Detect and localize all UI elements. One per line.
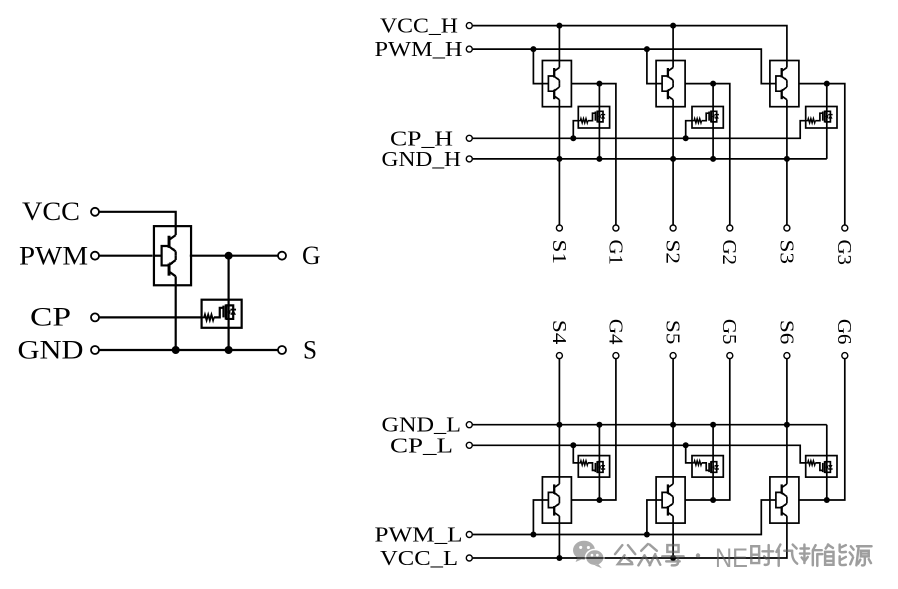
svg-text:PWM_H: PWM_H: [375, 37, 463, 61]
junction S node cell 3: [784, 156, 790, 162]
terminal VCC_H: [466, 23, 472, 29]
junction CP tap cell 2: [683, 135, 689, 141]
wire GND_H rail: [473, 158, 827, 160]
junction clamp drain cell 2: [710, 81, 716, 87]
wire CP tap cell 2: [686, 121, 692, 139]
terminal G4: [613, 353, 619, 359]
port label PWM: [19, 241, 88, 270]
junction clamp source cell 1: [596, 156, 602, 162]
junction CP tap cell 5: [683, 442, 689, 448]
NMOS gate bar cell 6: [822, 463, 824, 472]
wire clamp drain vertical cell 5: [712, 425, 714, 500]
junction node G: [225, 252, 233, 260]
NMOS channel bar cell 4: [596, 461, 598, 473]
terminal G6: [842, 353, 848, 359]
junction S node cell 5: [670, 422, 676, 428]
pin label G6: [833, 319, 855, 345]
clamp gate wire cell 5: [702, 463, 710, 471]
terminal GND: [91, 346, 99, 354]
wire VCC tap cell 4: [558, 523, 560, 558]
svg-text:G4: G4: [604, 319, 626, 345]
terminal CP_L: [466, 442, 472, 448]
svg-text:S5: S5: [662, 320, 684, 345]
NMOS gate bar cell 3: [822, 112, 824, 121]
driver base bracket wire cell 4: [542, 492, 554, 507]
wire terminal S1: [558, 159, 560, 225]
transistor PNP (driver lower) cell 3: [782, 84, 787, 107]
NMOS drain/source stubs cell 4: [597, 462, 600, 473]
wire PWM_L rail: [473, 500, 770, 535]
transistor PNP (driver lower) U1: [169, 256, 176, 286]
wire gate output cell 5: [685, 359, 730, 500]
NMOS gate bar cell 1: [594, 112, 596, 121]
NMOS body diode cell 4: [599, 462, 605, 473]
junction VCC tap cell 1: [556, 23, 562, 29]
NMOS body diode cell 3: [827, 111, 833, 122]
junction clamp drain cell 4: [596, 497, 602, 503]
clamp block box cell 4: [578, 456, 609, 478]
svg-text:G3: G3: [833, 240, 855, 266]
wire CP tap cell 5: [686, 445, 692, 463]
wire CP_H rail: [473, 121, 806, 139]
transistor PNP (driver lower) cell 6: [782, 477, 787, 500]
wire PWM_H rail: [473, 49, 770, 84]
pin label S4: [548, 320, 570, 345]
wire VCC to driver top: [99, 212, 176, 227]
junction S node cell 6: [784, 422, 790, 428]
wire gate output cell 3: [799, 84, 845, 225]
wire PWM tap cell 1: [533, 49, 542, 84]
svg-text:VCC_H: VCC_H: [380, 14, 458, 38]
pin label S5: [662, 320, 684, 345]
wire gate output cell 1: [571, 84, 616, 225]
terminal G: [278, 252, 286, 260]
port label G: [302, 241, 321, 270]
wire terminal S4: [558, 359, 560, 425]
watermark text 公众号·NE时代新能源: [615, 543, 871, 573]
transistor NPN (driver upper) U1: [169, 226, 176, 256]
pin label S1: [548, 240, 570, 265]
port label PWM_L: [375, 523, 463, 547]
junction S node cell 2: [670, 156, 676, 162]
svg-text:S1: S1: [548, 240, 570, 265]
driver base bracket wire cell 6: [770, 492, 782, 507]
wire VCC_H rail: [473, 26, 787, 61]
junction clamp drain cell 6: [824, 497, 830, 503]
svg-text:G6: G6: [833, 319, 855, 345]
svg-text:NE: NE: [715, 543, 748, 573]
wire VCC tap cell 5: [672, 523, 674, 558]
clamp block box cell 3: [806, 107, 837, 129]
NMOS body diode cell 6: [827, 462, 833, 473]
NMOS gate bar cell 5: [708, 463, 710, 472]
clamp gate wire U2: [214, 308, 224, 318]
terminal VCC_L: [466, 555, 472, 561]
driver block box cell 6: [770, 477, 799, 523]
clamp gate resistor cell 4: [578, 461, 588, 465]
pin label G4: [604, 319, 626, 345]
driver block box cell 1: [542, 61, 571, 107]
clamp gate wire cell 1: [588, 113, 596, 121]
wire VCC tap cell 2: [672, 26, 674, 61]
port label GND_H: [382, 147, 462, 171]
clamp gate resistor cell 2: [692, 119, 702, 123]
wire gate output cell 6: [799, 359, 845, 500]
NMOS channel bar cell 3: [824, 111, 826, 123]
pin label S6: [775, 320, 797, 345]
port label VCC: [22, 197, 80, 226]
terminal S4: [556, 353, 562, 359]
svg-text:GND_H: GND_H: [382, 147, 462, 171]
wire CP tap cell 4: [573, 445, 578, 463]
svg-text:G: G: [302, 241, 321, 270]
svg-text:S: S: [303, 335, 317, 364]
terminal PWM: [91, 252, 99, 260]
NMOS drain/source stubs cell 6: [825, 462, 828, 473]
wire terminal S2: [672, 159, 674, 225]
NMOS drain/source stubs cell 3: [825, 111, 828, 122]
svg-text:VCC_L: VCC_L: [380, 546, 458, 570]
junction GND-clamp: [225, 346, 233, 354]
clamp gate wire cell 6: [815, 463, 823, 471]
clamp gate resistor cell 5: [692, 461, 702, 465]
junction PWM tap cell 1: [530, 46, 536, 52]
driver base bracket wire U1: [154, 246, 169, 265]
clamp gate resistor cell 1: [578, 119, 588, 123]
clamp gate resistor cell 6: [806, 461, 816, 465]
pin label S2: [662, 240, 684, 265]
port label CP_L: [390, 433, 453, 457]
driver block box cell 2: [656, 61, 685, 107]
junction VCC tap cell 5: [670, 555, 676, 561]
wire terminal S5: [672, 359, 674, 425]
transistor PNP (driver lower) cell 2: [668, 84, 673, 107]
junction S node cell 4: [556, 422, 562, 428]
svg-text:CP: CP: [30, 303, 71, 332]
port label GND: [18, 335, 84, 364]
junction clamp source cell 5: [710, 422, 716, 428]
transistor PNP (driver lower) cell 1: [554, 84, 559, 107]
wire clamp drain vertical cell 3: [826, 84, 828, 159]
svg-text:GND: GND: [18, 335, 84, 364]
port label VCC_L: [380, 546, 458, 570]
junction PWM tap cell 4: [530, 532, 536, 538]
wire PWM tap cell 2: [647, 49, 656, 84]
wire driver emitter rail cell 1: [558, 107, 560, 159]
wire gate output cell 2: [685, 84, 730, 225]
NMOS gate bar cell 2: [708, 112, 710, 121]
wire GND_L rail: [473, 424, 827, 426]
terminal G3: [842, 225, 848, 231]
wire CP_L rail: [473, 445, 806, 463]
terminal G5: [727, 353, 733, 359]
junction clamp source cell 4: [596, 422, 602, 428]
terminal S: [278, 346, 286, 354]
transistor PNP (driver lower) cell 4: [554, 477, 559, 500]
NMOS gate bar U2: [222, 306, 224, 318]
svg-text:CP_L: CP_L: [390, 433, 453, 457]
clamp gate wire cell 3: [815, 113, 823, 121]
NMOS drain/source stubs cell 1: [597, 111, 600, 122]
wire terminal S6: [786, 359, 788, 425]
clamp block box cell 5: [692, 456, 723, 478]
clamp gate wire cell 4: [588, 463, 596, 471]
junction CP tap cell 1: [570, 135, 576, 141]
wire PWM tap cell 4: [533, 500, 542, 535]
driver base bracket wire cell 2: [656, 76, 668, 91]
transistor NPN (driver upper) cell 2: [668, 61, 673, 84]
svg-text:S3: S3: [775, 240, 797, 265]
pin label G5: [718, 319, 740, 345]
driver block box U1: [154, 226, 191, 285]
wire VCC_L rail: [473, 523, 787, 558]
port label GND_L: [382, 413, 462, 437]
terminal CP: [91, 313, 99, 321]
terminal S2: [670, 225, 676, 231]
clamp gate resistor cell 3: [806, 119, 816, 123]
NMOS body diode U2: [229, 305, 236, 319]
wire driver output to node G: [190, 255, 282, 257]
svg-text:VCC: VCC: [22, 197, 80, 226]
wire PWM tap cell 5: [647, 500, 656, 535]
svg-text:G2: G2: [718, 240, 740, 266]
pin label G2: [718, 240, 740, 266]
driver base bracket wire cell 1: [542, 76, 554, 91]
wire clamp drain vertical cell 1: [598, 84, 600, 159]
transistor NPN (driver upper) cell 6: [782, 500, 787, 523]
wire CP to clamp: [99, 316, 202, 318]
terminal GND_H: [466, 156, 472, 162]
wire clamp drain vertical cell 6: [826, 425, 828, 500]
pin label S3: [775, 240, 797, 265]
junction PWM tap cell 2: [644, 46, 650, 52]
NMOS channel bar cell 5: [710, 461, 712, 473]
clamp gate resistor U2: [202, 315, 214, 321]
NMOS drain/source stubs U2: [226, 305, 230, 319]
wire driver emitter rail cell 4: [558, 425, 560, 477]
NMOS channel bar cell 2: [710, 111, 712, 123]
wire clamp drain vertical cell 2: [712, 84, 714, 159]
terminal S5: [670, 353, 676, 359]
junction clamp drain cell 3: [824, 81, 830, 87]
clamp block box cell 6: [806, 456, 837, 478]
NMOS channel bar cell 1: [596, 111, 598, 123]
wire driver emitter rail cell 3: [786, 107, 788, 159]
transistor PNP (driver lower) cell 5: [668, 477, 673, 500]
clamp gate wire cell 2: [702, 113, 710, 121]
NMOS channel bar cell 6: [824, 461, 826, 473]
wire driver lower rail: [175, 285, 177, 350]
junction GND-driver: [172, 346, 180, 354]
port label VCC_H: [380, 14, 458, 38]
watermark WeChat icon: [573, 541, 604, 569]
svg-text:G5: G5: [718, 319, 740, 345]
wire driver emitter rail cell 2: [672, 107, 674, 159]
port label CP_H: [390, 126, 453, 150]
wire gate output cell 4: [571, 359, 616, 500]
clamp block box cell 1: [578, 107, 609, 129]
NMOS body diode cell 5: [713, 462, 719, 473]
pin label G1: [604, 240, 626, 266]
transistor NPN (driver upper) cell 3: [782, 61, 787, 84]
wire driver emitter rail cell 5: [672, 425, 674, 477]
svg-text:S4: S4: [548, 320, 570, 345]
wire terminal S3: [786, 159, 788, 225]
junction S node cell 1: [556, 156, 562, 162]
wire VCC tap cell 1: [558, 26, 560, 61]
terminal GND_L: [466, 422, 472, 428]
wire CP tap cell 1: [573, 121, 578, 139]
terminal S6: [784, 353, 790, 359]
junction PWM tap cell 5: [644, 532, 650, 538]
svg-text:G1: G1: [604, 240, 626, 266]
wire PWM input: [99, 255, 153, 257]
NMOS drain/source stubs cell 2: [711, 111, 714, 122]
svg-text:S6: S6: [775, 320, 797, 345]
transistor NPN (driver upper) cell 5: [668, 500, 673, 523]
svg-text:S2: S2: [662, 240, 684, 265]
NMOS channel bar U2: [225, 304, 228, 319]
junction clamp drain cell 5: [710, 497, 716, 503]
svg-text:PWM: PWM: [19, 241, 88, 270]
driver base bracket wire cell 3: [770, 76, 782, 91]
clamp block box cell 2: [692, 107, 723, 129]
terminal VCC: [91, 208, 99, 216]
wire clamp drain vertical: [228, 256, 230, 350]
port label S: [303, 335, 317, 364]
svg-text:PWM_L: PWM_L: [375, 523, 463, 547]
terminal CP_H: [466, 135, 472, 141]
port label CP: [30, 303, 71, 332]
terminal PWM_H: [466, 46, 472, 52]
wire clamp drain vertical cell 4: [598, 425, 600, 500]
terminal G2: [727, 225, 733, 231]
NMOS drain/source stubs cell 5: [711, 462, 714, 473]
terminal S1: [556, 225, 562, 231]
NMOS body diode cell 2: [713, 111, 719, 122]
terminal G1: [613, 225, 619, 231]
driver block box cell 3: [770, 61, 799, 107]
pin label G3: [833, 240, 855, 266]
driver base bracket wire cell 5: [656, 492, 668, 507]
wire GND rail: [99, 349, 282, 351]
terminal S3: [784, 225, 790, 231]
junction clamp drain cell 1: [596, 81, 602, 87]
clamp block box U2: [202, 300, 242, 328]
wire driver emitter rail cell 6: [786, 425, 788, 477]
transistor NPN (driver upper) cell 1: [554, 61, 559, 84]
junction VCC tap cell 4: [556, 555, 562, 561]
driver block box cell 5: [656, 477, 685, 523]
transistor NPN (driver upper) cell 4: [554, 500, 559, 523]
junction clamp source cell 2: [710, 156, 716, 162]
port label PWM_H: [375, 37, 463, 61]
NMOS body diode cell 1: [599, 111, 605, 122]
driver block box cell 4: [542, 477, 571, 523]
NMOS gate bar cell 4: [594, 463, 596, 472]
terminal PWM_L: [466, 532, 472, 538]
junction CP tap cell 4: [570, 442, 576, 448]
junction VCC tap cell 2: [670, 23, 676, 29]
